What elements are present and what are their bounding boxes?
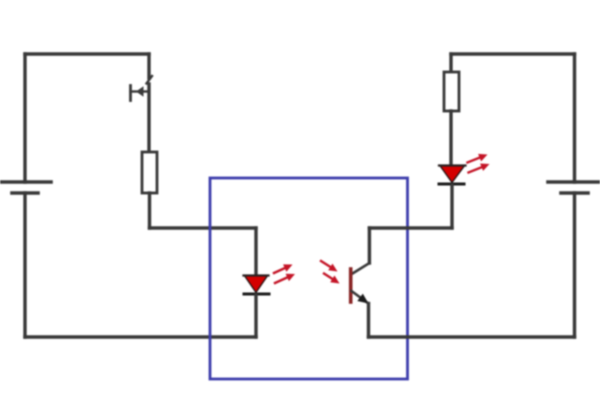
wire left vertical lower [23,193,26,337]
wire switch branch upper [147,54,150,78]
wire R1 bottom [148,193,151,228]
wire top-left horizontal [25,52,149,55]
wire LED D1 cathode [254,295,257,337]
resistor R2 [444,72,459,111]
wire left vertical upper [23,54,26,182]
wire switch to resistor [147,84,150,152]
wire R2 to LED D2 [449,111,452,167]
phototransistor Q1 [351,228,370,337]
light arrows from D1 [274,264,295,283]
wire bottom-left horizontal [25,335,256,338]
wire top-right horizontal [451,52,575,55]
wire right vertical lower [573,193,576,337]
wire collector horizontal [369,226,452,229]
wire right vertical upper [573,54,576,182]
optocoupler box U1 [210,178,408,379]
LED D1 [244,276,270,295]
light arrows into Q1 [321,261,340,284]
wire into coupler left [150,226,257,229]
LED D2 [439,166,466,185]
switch S1 [131,76,153,101]
wire bottom-right horizontal [369,335,575,338]
resistor R1 [142,152,157,193]
battery B1 [0,182,51,193]
battery B2 [548,182,600,193]
wire R2 top [449,54,452,72]
wire LED D2 cathode [450,185,453,228]
light arrows from D2 [468,154,490,173]
wire LED D1 anode [254,228,257,277]
